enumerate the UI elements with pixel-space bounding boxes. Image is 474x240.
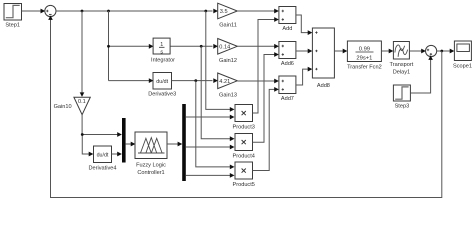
svg-text:0.1: 0.1 bbox=[78, 99, 86, 105]
node feedback junction bbox=[440, 50, 443, 53]
node deriv-junction to Product5 branch bbox=[194, 79, 197, 82]
wire Step1 to Sum1 bbox=[22, 10, 42, 12]
block Product5 bbox=[235, 162, 253, 179]
svg-text:Gain13: Gain13 bbox=[219, 92, 237, 98]
svg-text:Step3: Step3 bbox=[395, 103, 410, 109]
wire int branch to Product4 bbox=[201, 46, 230, 138]
block Step3 bbox=[393, 85, 410, 101]
wire e down to Gain10 bbox=[81, 11, 83, 93]
svg-text:3.5: 3.5 bbox=[220, 9, 228, 15]
svg-text:du/dt: du/dt bbox=[156, 79, 168, 85]
wire Step3 to Sum2 bbox=[410, 60, 430, 94]
svg-text:Gain12: Gain12 bbox=[219, 58, 237, 64]
wire Demux out2 to Product4 bbox=[186, 146, 231, 148]
node e-junction to Integrator/Derivative3 bbox=[107, 10, 110, 13]
block Gain11 bbox=[218, 3, 238, 19]
block Scope1 bbox=[454, 41, 471, 61]
wire Derivative4 to Mux bbox=[112, 153, 119, 155]
wire Derivative3 to Gain13 bbox=[172, 80, 213, 82]
demux Demux1 bar bbox=[182, 104, 186, 181]
svg-text:Transport: Transport bbox=[390, 62, 414, 68]
block Derivative4 bbox=[94, 146, 112, 163]
wire Add6 to Add8 bbox=[296, 50, 309, 52]
svg-text:Add8: Add8 bbox=[317, 83, 330, 89]
block Gain12 bbox=[218, 39, 238, 55]
block Step1 bbox=[4, 4, 22, 21]
svg-text:Gain10: Gain10 bbox=[54, 104, 72, 110]
wire Product5 up to Add7 bbox=[253, 89, 276, 170]
wire Integrator to Gain12 bbox=[171, 45, 213, 47]
wire Gain10 to Mux and Derivative4 bbox=[82, 115, 118, 154]
block Add6 bbox=[279, 42, 296, 59]
wire TransportDelay1 to Sum2 bbox=[409, 50, 422, 52]
svg-text:s: s bbox=[160, 50, 163, 56]
node e-junction to Gain10 bbox=[81, 10, 84, 13]
block Product3 bbox=[235, 105, 253, 122]
wire Mux to Fuzzy bbox=[126, 143, 132, 145]
sum junction Sum2 bbox=[426, 45, 437, 56]
svg-text:4.21: 4.21 bbox=[219, 79, 230, 85]
svg-text:Scope1: Scope1 bbox=[453, 63, 472, 69]
svg-text:Fuzzy Logic: Fuzzy Logic bbox=[136, 163, 166, 169]
block Transport Delay1 bbox=[393, 42, 409, 60]
block Gain13 bbox=[218, 73, 238, 89]
wire Add to Add8 bbox=[296, 15, 309, 33]
wire feedback loop bbox=[51, 20, 442, 198]
wire Add7 to Add8 bbox=[296, 69, 309, 85]
block Add8 bbox=[312, 28, 334, 78]
wire Gain13 to Add7 bbox=[237, 80, 275, 82]
block Add bbox=[279, 7, 296, 24]
wire e down to Integrator and Derivative3 bbox=[109, 11, 150, 81]
wire Sum1 output main e line bbox=[56, 10, 213, 12]
wire TransferFcn2 to TransportDelay1 bbox=[381, 50, 389, 52]
block Gain10 bbox=[74, 97, 90, 115]
wire Add8 to TransferFcn2 bbox=[334, 50, 343, 52]
svg-text:Derivative3: Derivative3 bbox=[148, 92, 176, 98]
wire Product4 up to Add6 bbox=[253, 55, 276, 143]
svg-text:Product4: Product4 bbox=[233, 153, 255, 159]
block Fuzzy Logic Controller1 bbox=[135, 132, 167, 159]
svg-text:Product3: Product3 bbox=[233, 124, 255, 130]
svg-text:0.14: 0.14 bbox=[219, 44, 230, 50]
wire deriv branch to Product5 bbox=[196, 81, 231, 167]
node int-junction to Product4 branch bbox=[200, 45, 203, 48]
node Integrator branch junction bbox=[107, 45, 110, 48]
svg-text:du/dt: du/dt bbox=[97, 153, 109, 159]
svg-text:Add7: Add7 bbox=[281, 96, 294, 102]
svg-text:Add6: Add6 bbox=[281, 61, 294, 67]
block Add7 bbox=[279, 76, 296, 94]
svg-text:Product5: Product5 bbox=[233, 182, 255, 188]
wire Gain11 to Add bbox=[237, 10, 275, 12]
svg-text:Transfer Fcn2: Transfer Fcn2 bbox=[347, 64, 382, 70]
svg-text:Derivative4: Derivative4 bbox=[89, 165, 117, 171]
block Derivative3 bbox=[153, 73, 172, 90]
wire Demux out3 to Product5 bbox=[186, 174, 231, 176]
wire Product3 up to Add bbox=[253, 20, 276, 114]
sum junction Sum1 bbox=[45, 5, 56, 16]
block Transfer Fcn2 bbox=[347, 41, 381, 62]
mux Mux1 bar bbox=[122, 118, 126, 163]
svg-text:Add: Add bbox=[282, 26, 292, 32]
svg-text:29s+1: 29s+1 bbox=[356, 55, 372, 61]
svg-text:Delay1: Delay1 bbox=[393, 70, 410, 76]
wire Sum2 to Scope1 with feedback junction bbox=[437, 50, 451, 52]
svg-text:Integrator: Integrator bbox=[151, 58, 175, 64]
block Product4 bbox=[235, 134, 253, 151]
block Integrator bbox=[153, 38, 170, 54]
wire e branch to Product3 bbox=[206, 11, 231, 109]
wire Gain12 to Add6 bbox=[237, 45, 275, 47]
wire Demux out1 to Product3 bbox=[186, 116, 231, 118]
node Gain10 branch junction bbox=[81, 133, 84, 136]
svg-text:Step1: Step1 bbox=[5, 22, 20, 28]
svg-text:Controller1: Controller1 bbox=[137, 170, 164, 176]
node e-junction to Product3 branch bbox=[204, 10, 207, 13]
wire Fuzzy to Demux bbox=[167, 143, 179, 145]
svg-text:Gain11: Gain11 bbox=[219, 22, 237, 28]
svg-text:0.99: 0.99 bbox=[359, 46, 370, 52]
